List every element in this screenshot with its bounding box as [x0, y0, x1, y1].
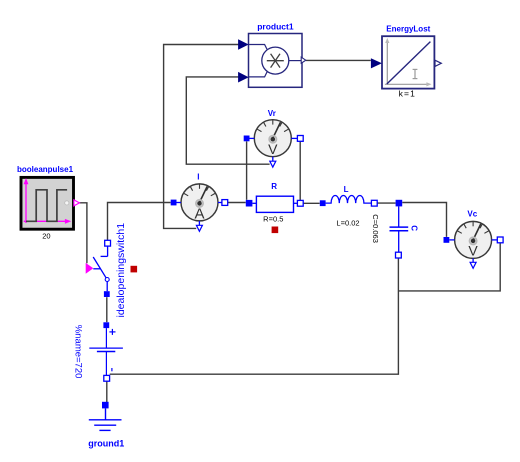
- svg-text:V: V: [268, 141, 278, 157]
- svg-text:booleanpulse1: booleanpulse1: [17, 165, 74, 174]
- svg-text:EnergyLost: EnergyLost: [386, 25, 430, 34]
- svg-text:L=0.02: L=0.02: [336, 219, 359, 228]
- svg-text:Vc: Vc: [467, 209, 477, 218]
- svg-text:%name=720: %name=720: [72, 325, 83, 379]
- svg-text:idealopeningswitch1: idealopeningswitch1: [115, 223, 127, 318]
- svg-text:k=1: k=1: [399, 89, 416, 99]
- svg-text:product1: product1: [257, 21, 294, 31]
- svg-text:R=0.5: R=0.5: [263, 214, 283, 223]
- svg-text:Vr: Vr: [268, 109, 276, 118]
- svg-text:V: V: [468, 243, 478, 259]
- svg-text:ground1: ground1: [88, 438, 124, 448]
- svg-text:A: A: [194, 205, 204, 222]
- svg-text:I: I: [197, 173, 199, 182]
- svg-text:C=0.063: C=0.063: [371, 214, 380, 243]
- svg-text:C: C: [410, 225, 419, 231]
- svg-text:L: L: [344, 185, 349, 194]
- svg-text:R: R: [271, 182, 277, 191]
- svg-text:20: 20: [42, 232, 50, 241]
